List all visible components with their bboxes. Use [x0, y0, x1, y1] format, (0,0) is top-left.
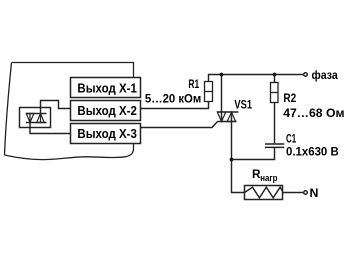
node dot C1 junction	[230, 158, 234, 162]
svg-text:0.1х630 В: 0.1х630 В	[286, 144, 339, 158]
wire VS1 top lead	[221, 75, 223, 122]
svg-text:фаза: фаза	[312, 68, 338, 82]
svg-text:R2: R2	[283, 91, 296, 105]
wire R1 top to фаза terminal	[209, 75, 304, 82]
svg-text:C1: C1	[286, 131, 296, 145]
wire gate X-3 to VS1	[141, 122, 218, 128]
svg-text:VS1: VS1	[234, 97, 252, 111]
terminal row box X-3	[71, 124, 141, 144]
wire R2 branch	[274, 75, 276, 83]
triac VS1	[217, 112, 239, 122]
wire VS1 bottom lead down to load row	[232, 112, 245, 193]
svg-text:47…68 Ом: 47…68 Ом	[283, 106, 344, 120]
opto-triac symbol	[26, 114, 47, 123]
optocoupler box U1	[20, 108, 51, 128]
resistor R1	[205, 82, 213, 102]
svg-text:N: N	[310, 186, 319, 200]
svg-text:нагр: нагр	[260, 173, 278, 183]
wire R2 to C1	[274, 103, 276, 144]
terminal фаза	[304, 73, 308, 77]
svg-text:Выход Х-3: Выход Х-3	[77, 127, 137, 141]
terminal row box X-2	[71, 101, 141, 121]
node dot VS1 top	[220, 73, 224, 77]
svg-text:R1: R1	[188, 77, 199, 91]
node dot R2 top	[273, 73, 277, 77]
wire X-2 to R1	[141, 102, 209, 109]
svg-text:Выход Х-1: Выход Х-1	[77, 81, 137, 95]
resistor Rнагр zigzag	[245, 187, 283, 198]
terminal row box X-1	[71, 78, 141, 98]
svg-text:Выход Х-2: Выход Х-2	[77, 104, 137, 118]
svg-text:5…20 кОм: 5…20 кОм	[145, 92, 201, 106]
wire Rнагр to N	[283, 192, 304, 194]
resistor Rнагр box	[245, 186, 283, 200]
wire opto top lead to X-2	[41, 101, 71, 114]
wire opto bottom lead to X-3	[30, 123, 71, 134]
resistor R2	[271, 83, 279, 103]
terminal N	[304, 191, 308, 195]
capacitor C1	[265, 144, 284, 147]
device outline (torn box)	[5, 63, 134, 160]
wire C1 bottom to junction	[232, 147, 275, 159]
